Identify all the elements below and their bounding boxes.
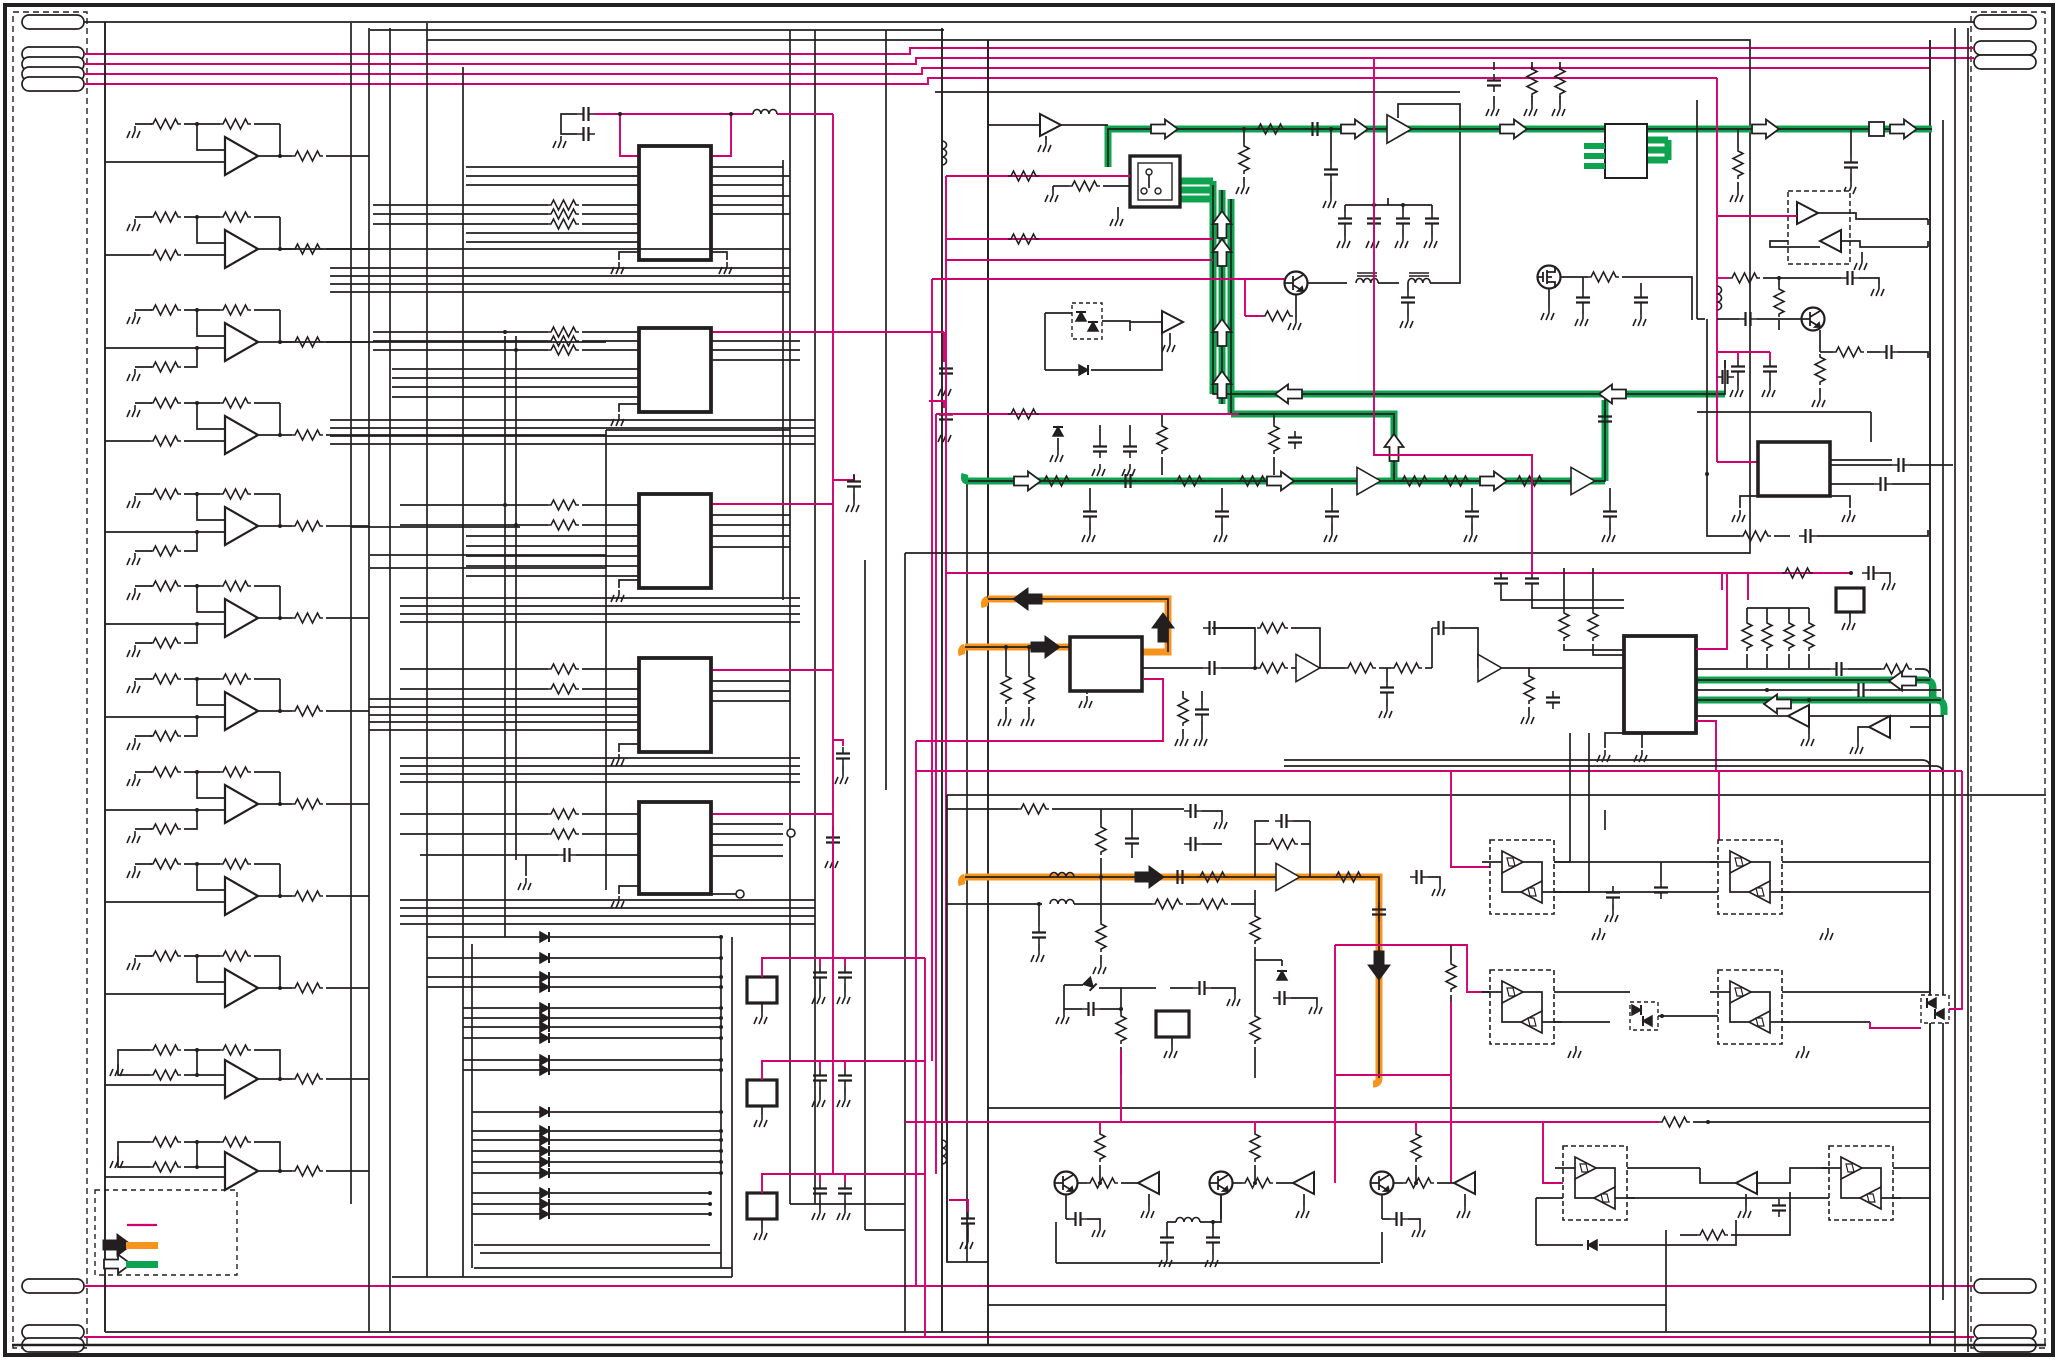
resistor bbox=[548, 327, 579, 337]
wire bbox=[1089, 523, 1091, 530]
resistor bbox=[1411, 1131, 1421, 1162]
ground bbox=[1882, 578, 1895, 590]
resistor output bbox=[292, 983, 323, 993]
wire net bbox=[1696, 573, 1727, 649]
resistor bbox=[548, 200, 579, 210]
resistor bbox=[150, 119, 181, 129]
wire op-amp minus input bbox=[197, 864, 225, 890]
ground bbox=[1379, 706, 1392, 718]
wire output bbox=[326, 617, 369, 619]
ground bbox=[1871, 284, 1884, 296]
capacitor bbox=[838, 1182, 852, 1200]
ground bbox=[812, 992, 825, 1004]
wire IC4 pin row bbox=[582, 688, 639, 690]
wire bbox=[1880, 573, 1890, 578]
resistor bbox=[1733, 148, 1743, 179]
wire bbox=[1044, 313, 1046, 370]
wire bbox=[1641, 733, 1643, 748]
wire bbox=[184, 771, 220, 773]
wire bbox=[1464, 1194, 1466, 1206]
wire bbox=[1200, 1194, 1221, 1222]
capacitor bbox=[1325, 505, 1339, 523]
wire IC2 pin row bbox=[582, 331, 639, 333]
resistor feedback bbox=[220, 951, 251, 961]
capacitor bbox=[847, 475, 861, 493]
IC U4 bbox=[0, 0, 1, 1]
IC U5 body bbox=[639, 802, 711, 894]
open terminal bbox=[736, 890, 744, 898]
wire bbox=[1142, 667, 1203, 669]
wire bbox=[1382, 1219, 1420, 1225]
wire bbox=[1482, 991, 1490, 993]
wire bus row bbox=[400, 915, 815, 917]
op-amp bbox=[225, 599, 258, 637]
wire bbox=[1254, 1047, 1256, 1078]
wire bbox=[184, 955, 220, 957]
wire bbox=[1130, 321, 1162, 323]
ground bbox=[1820, 928, 1833, 940]
wire bbox=[1554, 992, 1630, 1022]
connector pin pill L2 bbox=[22, 47, 84, 61]
wire bbox=[853, 493, 855, 500]
wire bbox=[1432, 628, 1478, 668]
wire net stub bbox=[844, 1174, 846, 1182]
wire IC1 pin row bbox=[373, 204, 548, 206]
wire bottom net F bbox=[84, 1336, 1974, 1338]
wire IC2 pin row bbox=[582, 349, 639, 351]
wire bbox=[1769, 378, 1771, 385]
ground bbox=[1541, 308, 1554, 320]
flow arrow right filled bbox=[1031, 636, 1060, 658]
wire output bbox=[326, 710, 369, 712]
diode bbox=[1088, 322, 1098, 331]
ground bbox=[1486, 104, 1499, 116]
capacitor bbox=[961, 1212, 975, 1230]
wire net bbox=[1719, 770, 1962, 772]
wire net bbox=[1717, 351, 1770, 353]
wire bus row bbox=[330, 435, 815, 437]
IC U9 bbox=[0, 0, 1, 1]
capacitor bbox=[1598, 410, 1612, 428]
wire net bbox=[946, 572, 1851, 574]
ground bbox=[127, 738, 140, 750]
wire diode row bbox=[472, 1139, 721, 1141]
inductor bbox=[1717, 286, 1722, 310]
ground bbox=[1205, 1255, 1218, 1267]
connector J2 shell (right edge) bbox=[1971, 12, 2045, 1348]
bus vertical bbox=[104, 22, 106, 1332]
buffer amp left bbox=[1293, 1172, 1314, 1194]
op-amp bbox=[1387, 115, 1412, 144]
wire bbox=[1045, 333, 1162, 370]
wire bbox=[135, 216, 152, 218]
wire bbox=[135, 585, 152, 587]
wire bbox=[254, 863, 280, 865]
wire feedback bbox=[279, 403, 281, 435]
wire IC2 pin row bbox=[373, 340, 548, 342]
wire bus row bbox=[400, 923, 815, 925]
capacitor bbox=[1367, 212, 1381, 230]
wire bbox=[761, 1219, 763, 1228]
wire net V5 bbox=[832, 826, 834, 831]
wire output bbox=[258, 248, 292, 250]
capacitor bbox=[1273, 991, 1291, 1005]
inductor bbox=[1176, 1218, 1200, 1223]
flow arrow bbox=[1267, 472, 1294, 491]
wire bbox=[1808, 608, 1810, 668]
diode bbox=[540, 972, 549, 982]
wire bus row bbox=[400, 597, 800, 599]
wire bbox=[1212, 1222, 1214, 1255]
wire bus row bbox=[400, 613, 800, 615]
wire net V2 bbox=[711, 331, 944, 333]
wire bbox=[135, 828, 152, 830]
wire input bbox=[105, 1176, 225, 1178]
capacitor bbox=[1739, 312, 1757, 326]
capacitor bbox=[1306, 122, 1324, 136]
bus vertical bbox=[720, 937, 722, 1268]
driver transistor stage 3 bbox=[0, 0, 1, 1]
capacitor bbox=[1069, 1212, 1087, 1226]
wire bbox=[842, 765, 844, 772]
resistor bbox=[150, 305, 181, 315]
wire output bbox=[258, 895, 292, 897]
ground bbox=[1552, 104, 1565, 116]
wire net stub bbox=[819, 1061, 821, 1069]
wire bbox=[1554, 861, 1570, 863]
wire bbox=[1757, 1168, 1829, 1183]
ground bbox=[846, 500, 859, 512]
wire net bbox=[945, 176, 947, 1122]
capacitor bbox=[1410, 870, 1428, 884]
module X1 bbox=[0, 0, 1, 1]
wire bbox=[1053, 185, 1069, 187]
IC U7 bbox=[0, 0, 1, 1]
wire bbox=[184, 585, 220, 587]
wire IC4 pin row bbox=[400, 668, 548, 670]
ground bbox=[1092, 464, 1105, 476]
flow arrow bbox=[1341, 120, 1368, 139]
capacitor bbox=[1206, 1231, 1220, 1249]
wire net bbox=[924, 958, 926, 1337]
wire feedback bbox=[279, 772, 281, 804]
wire IC5 pin row bbox=[711, 855, 783, 857]
driver pack F bbox=[1821, 1146, 1901, 1220]
wire IC3 pin row bbox=[466, 535, 639, 537]
wire bbox=[1910, 726, 1930, 728]
wire bbox=[844, 984, 846, 992]
ground bbox=[938, 384, 951, 396]
wire IC1 pin row bbox=[711, 166, 783, 168]
wire bbox=[1665, 1305, 1667, 1332]
op-amp bbox=[225, 507, 258, 545]
wire bbox=[1255, 843, 1310, 845]
wire output bbox=[326, 434, 369, 436]
buffer amp left bbox=[1138, 1172, 1159, 1194]
resistor input bbox=[150, 436, 181, 446]
resistor bbox=[1257, 623, 1288, 633]
wire top net A bbox=[84, 48, 1974, 54]
wire IC3 pin row bbox=[466, 575, 639, 577]
wire bbox=[1379, 667, 1391, 669]
wire bbox=[1431, 230, 1433, 236]
wire bbox=[184, 216, 220, 218]
diode bbox=[540, 953, 549, 963]
wire bbox=[1830, 496, 1850, 508]
wire bbox=[184, 1142, 220, 1167]
ground bbox=[1038, 140, 1051, 152]
bus vertical bbox=[605, 430, 607, 890]
wire IC4 pin row bbox=[369, 706, 639, 708]
ground bbox=[127, 405, 140, 417]
section frame mid2 bbox=[946, 795, 948, 1262]
wire input bbox=[105, 1084, 225, 1086]
IC U6 body bbox=[1605, 124, 1647, 178]
resistor bbox=[1267, 839, 1298, 849]
resistor bbox=[1087, 1178, 1118, 1188]
capacitor bbox=[1772, 1199, 1786, 1217]
wire diode row bbox=[427, 986, 721, 988]
wire net stub bbox=[1254, 1122, 1256, 1131]
ground bbox=[1045, 190, 1058, 202]
capacitor bbox=[1862, 566, 1880, 580]
ground bbox=[1288, 318, 1301, 330]
wire bottom bus bbox=[392, 1276, 732, 1278]
wire bbox=[525, 855, 527, 876]
resistor bbox=[1239, 143, 1249, 174]
wire bbox=[1450, 945, 1452, 1002]
resistor bbox=[1255, 124, 1286, 134]
ground bbox=[1424, 236, 1437, 248]
wire bbox=[1809, 715, 1943, 717]
wire bbox=[1564, 610, 1624, 650]
crystal body bbox=[1156, 1011, 1189, 1037]
driver pack E bbox=[1555, 1146, 1635, 1220]
capacitor bbox=[838, 966, 852, 984]
wire feedback bbox=[279, 494, 281, 526]
open terminal bbox=[787, 829, 795, 837]
resistor feedback bbox=[220, 212, 251, 222]
diode pack box bbox=[1630, 1002, 1658, 1030]
wire net stub bbox=[1415, 1122, 1417, 1131]
wire bbox=[819, 984, 821, 992]
resistor bbox=[1815, 354, 1825, 385]
op-amp stage 6 bbox=[0, 0, 1, 1]
wire bbox=[1386, 668, 1388, 706]
wire bbox=[1255, 821, 1269, 877]
wire bbox=[711, 252, 727, 260]
wire output bbox=[326, 155, 369, 157]
wire IC1 pin row bbox=[466, 175, 639, 177]
capacitor bbox=[1082, 1002, 1100, 1016]
resistor bbox=[1174, 476, 1205, 486]
wire diode row bbox=[472, 1161, 721, 1163]
wire bbox=[118, 1050, 150, 1075]
wire bbox=[135, 863, 152, 865]
wire bbox=[135, 955, 152, 957]
wire bbox=[1064, 985, 1121, 1009]
flow arrow down filled bbox=[1368, 951, 1390, 980]
wire IC U9 row bbox=[1696, 715, 1788, 717]
capacitor bbox=[1716, 370, 1734, 384]
wire bbox=[1331, 488, 1333, 505]
bus vertical bbox=[987, 40, 989, 1345]
op-amp stage 1 bbox=[0, 0, 1, 1]
inductor bbox=[753, 110, 777, 115]
diode bbox=[540, 1199, 549, 1209]
ground bbox=[611, 590, 624, 602]
wire top net D bbox=[84, 78, 1717, 84]
wire IC1 pin row bbox=[373, 213, 548, 215]
wire diode row bbox=[463, 1007, 721, 1009]
diode bbox=[540, 1209, 549, 1219]
wire IC U9 row bbox=[1696, 668, 1830, 670]
ground bbox=[960, 1237, 973, 1249]
wire bbox=[184, 624, 197, 643]
wire bus row bbox=[330, 275, 790, 277]
bus vertical bbox=[782, 160, 784, 600]
wire bbox=[1561, 276, 1588, 278]
wire bbox=[619, 886, 639, 894]
diode pack small bbox=[0, 0, 1, 1]
resistor bbox=[1024, 673, 1034, 704]
connector pin pill L4 bbox=[22, 67, 84, 81]
wire IC1 pin row bbox=[466, 184, 639, 186]
wire bbox=[1344, 205, 1346, 212]
wire bbox=[254, 402, 280, 404]
ground bbox=[553, 136, 566, 148]
wire net bbox=[1335, 945, 1490, 992]
wire net V6 bbox=[711, 669, 833, 671]
resistor bbox=[1096, 824, 1106, 855]
wire bbox=[1121, 1182, 1143, 1184]
capacitor bbox=[939, 362, 953, 380]
wire bbox=[1186, 903, 1197, 905]
bus vertical bbox=[1942, 120, 1944, 1300]
wire bbox=[1747, 608, 1850, 612]
wire op-amp minus input bbox=[197, 310, 225, 336]
driver transistor stage 1 bbox=[0, 0, 1, 1]
wire output bbox=[326, 987, 369, 989]
wire IC1 pin row bbox=[466, 241, 639, 243]
wire IC4 pin row bbox=[711, 680, 790, 682]
capacitor bbox=[813, 1069, 827, 1087]
capacitor bbox=[1203, 661, 1221, 675]
ground bbox=[1732, 510, 1745, 522]
ground bbox=[1122, 464, 1135, 476]
wire bbox=[1291, 667, 1296, 669]
ground bbox=[719, 262, 732, 274]
wire net V1 bbox=[595, 113, 753, 115]
resistor (on net) bbox=[1008, 409, 1039, 419]
resistor output bbox=[292, 613, 323, 623]
ground bbox=[611, 754, 624, 766]
wire bbox=[619, 252, 639, 260]
wire feedback loop bbox=[1398, 104, 1460, 129]
wire top net C bbox=[84, 68, 1930, 74]
ground bbox=[127, 588, 140, 600]
wire IC4 pin row bbox=[369, 698, 639, 700]
wire bbox=[1554, 733, 1589, 892]
resistor output bbox=[292, 244, 323, 254]
op-amp bbox=[1296, 654, 1320, 681]
buffer amp left bbox=[1869, 716, 1890, 738]
resistor bbox=[1178, 695, 1188, 726]
wire output bbox=[258, 155, 292, 157]
wire bbox=[1415, 1165, 1417, 1183]
wire IC5 cap row bbox=[420, 854, 558, 856]
wire IC1 pin row bbox=[582, 204, 639, 206]
wire bbox=[1056, 1222, 1382, 1263]
wire output bbox=[326, 895, 369, 897]
resistor bbox=[1881, 664, 1912, 674]
wire bbox=[1254, 1165, 1256, 1183]
wire net bbox=[931, 279, 933, 1061]
wire top black bbox=[84, 21, 1974, 23]
wire IC4 pin row bbox=[711, 700, 790, 702]
filter module bbox=[0, 0, 1, 1]
wire input bbox=[105, 531, 225, 533]
flow arrow up bbox=[1385, 434, 1404, 461]
resistor bbox=[1740, 531, 1771, 541]
ground bbox=[127, 553, 140, 565]
wire bbox=[1770, 213, 1928, 247]
wire net bbox=[1717, 461, 1757, 463]
wire net V4 bbox=[833, 740, 843, 746]
op-amp stage 7 bbox=[0, 0, 1, 1]
wire op-amp minus input bbox=[197, 956, 225, 982]
flow arrow bbox=[1014, 472, 1041, 491]
ground bbox=[127, 126, 140, 138]
wire bbox=[1148, 175, 1150, 188]
ground bbox=[1524, 104, 1537, 116]
wire IC5 pin row bbox=[711, 844, 783, 846]
wire op-amp input bbox=[197, 1074, 225, 1076]
diode bbox=[540, 1013, 549, 1023]
wire net bbox=[1500, 573, 1502, 575]
driver pack B bbox=[1710, 840, 1790, 914]
op-amp bbox=[225, 230, 258, 268]
diode bbox=[1588, 1240, 1597, 1250]
ground bbox=[1021, 714, 1034, 726]
wire bbox=[819, 1200, 821, 1208]
wire net bbox=[905, 1121, 1659, 1123]
bus vertical bbox=[426, 23, 428, 1277]
op-amp bbox=[225, 877, 258, 915]
wire bbox=[619, 404, 639, 412]
wire bbox=[1531, 62, 1533, 104]
wire bbox=[947, 1122, 988, 1262]
wire diode row bbox=[463, 1037, 721, 1039]
wire bbox=[1378, 282, 1399, 284]
wire bbox=[606, 429, 790, 431]
driver transistor stage 2 bbox=[0, 0, 1, 1]
filter body bbox=[747, 1080, 777, 1106]
ground bbox=[127, 831, 140, 843]
ground bbox=[1432, 884, 1445, 896]
diode bbox=[540, 1126, 549, 1136]
wire bbox=[281, 341, 606, 343]
flow arrow left bbox=[1889, 672, 1916, 691]
resistor bbox=[1152, 899, 1183, 909]
resistor bbox=[1116, 1013, 1126, 1044]
ground bbox=[110, 1156, 123, 1168]
resistor bbox=[548, 520, 579, 530]
op-amp bbox=[225, 137, 258, 175]
wire net bbox=[1747, 573, 1749, 600]
wire bbox=[1548, 288, 1550, 308]
wire bbox=[254, 309, 280, 311]
